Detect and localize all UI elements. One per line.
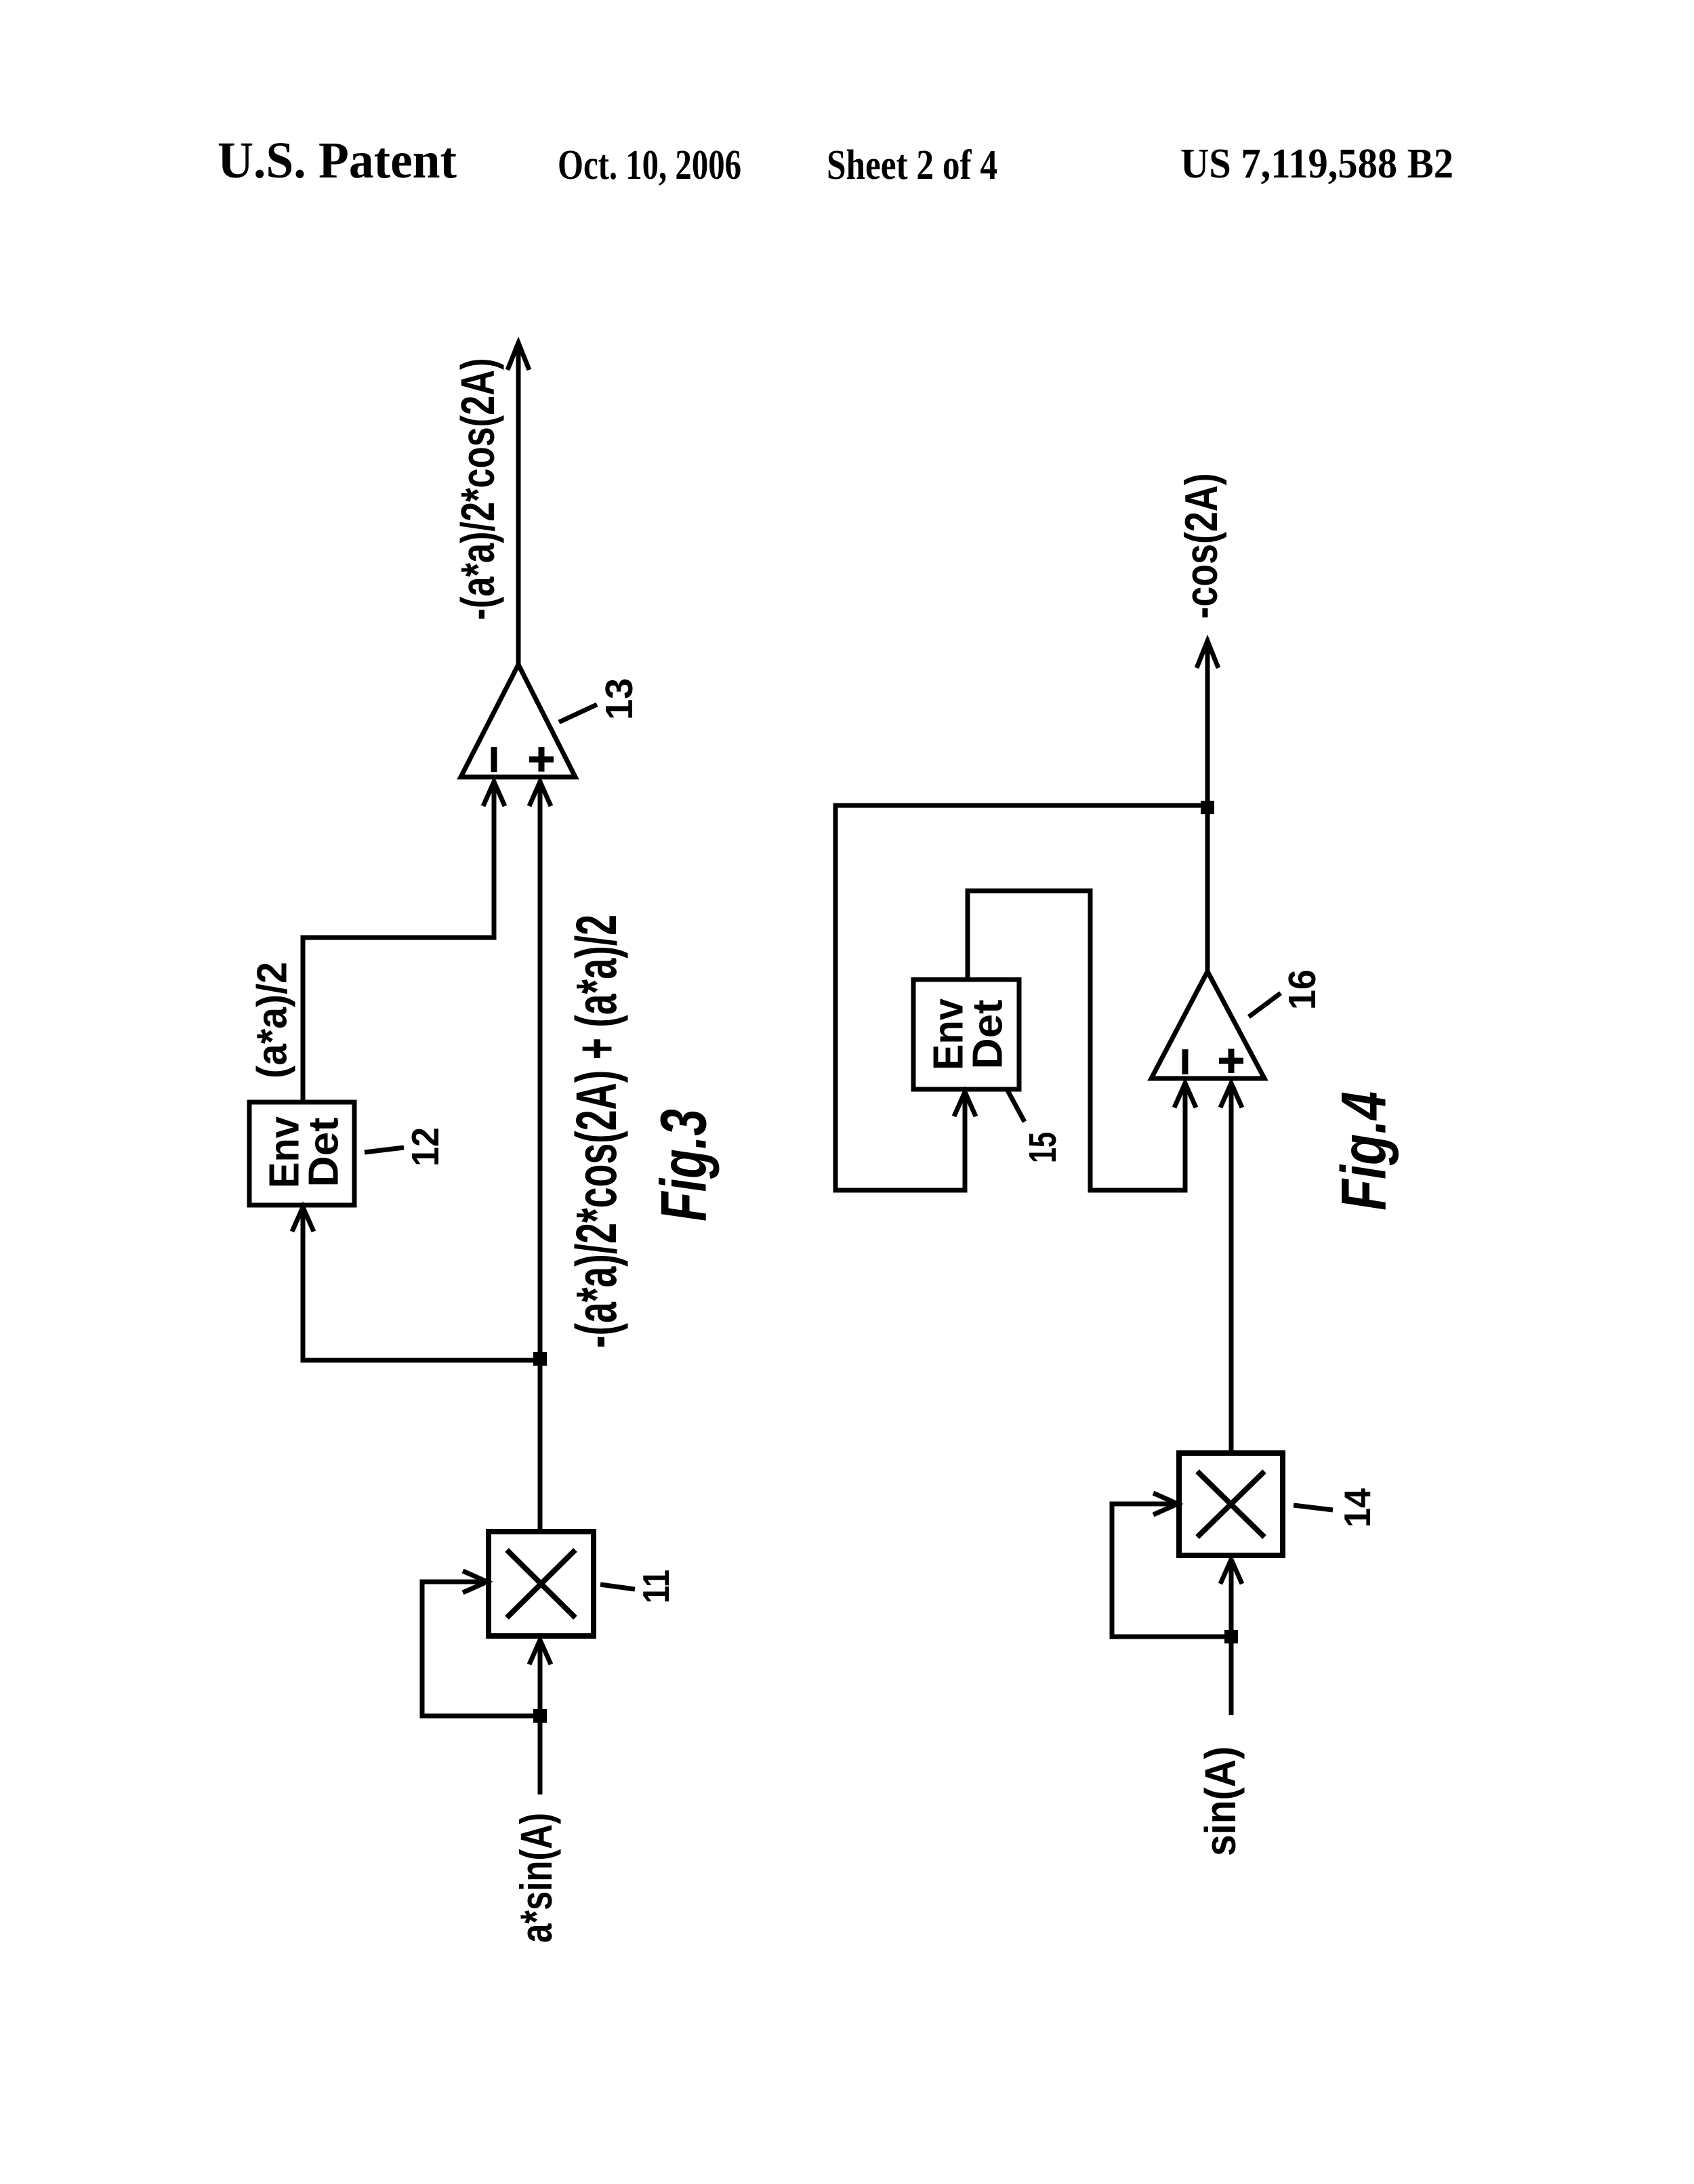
wire: + input of 16 from multiplier 14 xyxy=(1220,1083,1242,1453)
op-amp: subtractor triangle 13 xyxy=(461,665,575,777)
svg-text:14: 14 xyxy=(1336,1488,1378,1528)
env det 15 box xyxy=(913,980,1019,1089)
label: reference 14 tick xyxy=(1294,1505,1333,1510)
op-amp: subtractor triangle 16 xyxy=(1151,971,1264,1078)
node: junction below multiplier 11 xyxy=(533,1709,547,1723)
svg-text:Oct. 10, 2006: Oct. 10, 2006 xyxy=(558,142,741,188)
svg-text:Fig.3: Fig.3 xyxy=(648,1109,720,1221)
label: reference 11 tick xyxy=(600,1584,635,1589)
wire: output of subtractor 13 with arrowhead xyxy=(508,342,529,665)
svg-text:Fig.4: Fig.4 xyxy=(1328,1091,1399,1211)
svg-text:16: 16 xyxy=(1281,969,1324,1010)
wire: input arrow into multiplier 14 bottom xyxy=(1220,1559,1242,1715)
label: minus sign of 13 xyxy=(491,747,497,772)
svg-text:-(a*a)/2*cos(2A): -(a*a)/2*cos(2A) xyxy=(451,358,504,621)
wire: input arrow into multiplier 11 bottom xyxy=(529,1640,551,1794)
node: junction below multiplier 14 xyxy=(1224,1630,1238,1643)
svg-text:12: 12 xyxy=(404,1127,447,1167)
svg-text:Sheet 2 of 4: Sheet 2 of 4 xyxy=(827,142,997,188)
label: reference 13 tick xyxy=(559,705,597,722)
wire: output of subtractor 16 with arrowhead xyxy=(1197,640,1218,971)
multiplier 11 box with X xyxy=(489,1532,594,1636)
svg-text:sin(A): sin(A) xyxy=(1196,1746,1245,1856)
label: reference 15 tick xyxy=(1007,1089,1025,1122)
svg-text:U.S. Patent: U.S. Patent xyxy=(218,132,457,189)
svg-text:15: 15 xyxy=(1021,1132,1065,1163)
env det 12 box xyxy=(249,1102,354,1205)
wire: feedback loop around multiplier 14 xyxy=(1112,1493,1231,1637)
svg-text:-cos(2A): -cos(2A) xyxy=(1176,474,1227,619)
label: plus sign of 13 xyxy=(529,747,554,772)
svg-text:a*sin(A): a*sin(A) xyxy=(511,1813,561,1943)
svg-text:Det: Det xyxy=(301,1118,348,1188)
label: reference 16 tick xyxy=(1249,993,1281,1017)
wire: feedback from output junction to Env Det 15 input xyxy=(835,805,1207,1190)
svg-text:Det: Det xyxy=(965,1000,1012,1070)
node: junction on main line of Fig.3 xyxy=(533,1352,547,1366)
wire: feedback loop around multiplier 11 xyxy=(422,1571,540,1716)
svg-text:(a*a)/2: (a*a)/2 xyxy=(249,962,296,1078)
label: plus sign of 16 xyxy=(1219,1049,1243,1073)
label: reference 12 tick xyxy=(365,1148,404,1152)
node: junction on output line of Fig.4 xyxy=(1201,801,1214,814)
svg-text:-(a*a)/2*cos(2A) + (a*a)/2: -(a*a)/2*cos(2A) + (a*a)/2 xyxy=(564,915,628,1348)
svg-text:11: 11 xyxy=(635,1570,677,1603)
label: minus sign of 16 xyxy=(1182,1049,1189,1074)
svg-text:US 7,119,588 B2: US 7,119,588 B2 xyxy=(1180,141,1453,187)
wire: Env Det 12 output to - input of 13 xyxy=(303,782,505,1102)
wire: branch from junction to Env Det 12 input xyxy=(292,1207,540,1360)
multiplier 14 box with X xyxy=(1179,1453,1283,1555)
wire: main vertical line from multiplier 11 to + input of 13 xyxy=(529,780,551,1532)
svg-text:13: 13 xyxy=(598,678,641,720)
wire: Env Det 15 output to - input of 16 xyxy=(968,891,1196,1190)
